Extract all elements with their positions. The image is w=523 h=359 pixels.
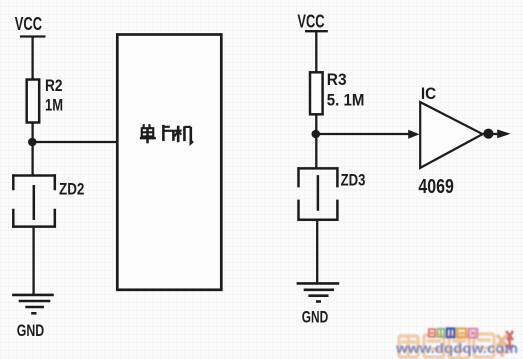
svg-text:R2: R2 — [45, 77, 63, 95]
svg-text:5. 1M: 5. 1M — [327, 91, 365, 109]
svg-text:1M: 1M — [45, 96, 63, 114]
svg-text:R3: R3 — [327, 71, 347, 89]
svg-text:ZD2: ZD2 — [59, 181, 84, 199]
svg-text:ZD3: ZD3 — [341, 171, 366, 189]
svg-text:GND: GND — [17, 322, 44, 340]
svg-text:4069: 4069 — [418, 175, 453, 198]
svg-text:VCC: VCC — [15, 14, 42, 34]
svg-text:VCC: VCC — [297, 12, 324, 32]
svg-text:IC: IC — [421, 85, 436, 103]
svg-text:GND: GND — [302, 308, 328, 326]
svg-text:www.dqdqw.com: www.dqdqw.com — [395, 341, 518, 356]
